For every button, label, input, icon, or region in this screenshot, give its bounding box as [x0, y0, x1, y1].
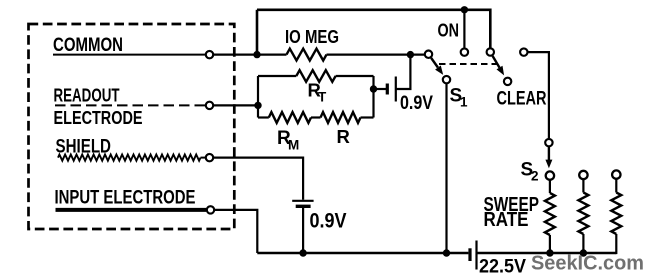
wire: shield terminal to battery	[214, 158, 303, 200]
switch CLEAR pole contact	[487, 48, 494, 55]
svg-text:INPUT ELECTRODE: INPUT ELECTRODE	[55, 188, 196, 209]
wire: S1 throw to bottom rail	[445, 84, 447, 253]
svg-text:COMMON: COMMON	[53, 34, 123, 56]
wire: loop left side	[257, 76, 259, 118]
switch S1 pole contact	[425, 51, 432, 58]
wire: loop top rail right	[336, 75, 374, 77]
svg-text:RATE: RATE	[484, 209, 529, 231]
node A: 10 MEG / S1 / cell	[407, 51, 414, 58]
wire: loop bottom rail right	[361, 116, 374, 118]
wire: bottom rail left	[257, 252, 468, 255]
input electrode thick lead	[56, 208, 207, 212]
node: loop right / cell junction	[370, 85, 377, 92]
switch S2 arrowhead	[545, 160, 552, 169]
wire: COMMON terminal to node	[214, 53, 287, 55]
switch contact ON	[461, 48, 468, 55]
resistor sweep rate 1	[545, 193, 555, 235]
wire: bottom rail right	[477, 252, 617, 255]
wire: loop bottom rail left	[258, 116, 269, 118]
battery 22.5V: short plate	[468, 248, 471, 261]
battery 0.9V: short plate	[296, 205, 311, 208]
resistor sweep rate 2	[578, 193, 588, 235]
node: resistor 1 / rail	[546, 249, 553, 256]
switch S1 throw contact	[443, 76, 450, 83]
switch S2 position contact 1	[546, 171, 554, 179]
svg-text:22.5V: 22.5V	[479, 256, 526, 278]
svg-text:T: T	[318, 90, 327, 105]
resistor R	[321, 112, 361, 123]
wire: top rail	[257, 10, 490, 48]
svg-text:0.9V: 0.9V	[400, 93, 433, 114]
svg-text:IO MEG: IO MEG	[285, 26, 339, 47]
wire: battery to bottom rail	[302, 208, 304, 253]
resistor RM	[269, 112, 311, 123]
battery cell 0.9V: long plate	[395, 77, 397, 102]
svg-text:0.9V: 0.9V	[310, 210, 347, 233]
wire: resistor 3 to rail corner	[615, 234, 617, 254]
dashed enclosure (electrometer head)	[29, 24, 235, 229]
wire: COMMON lead	[53, 54, 205, 56]
wire: loop top rail left	[258, 75, 296, 77]
resistor RT	[296, 70, 335, 82]
battery 0.9V: long plate	[292, 200, 313, 202]
node: battery / bottom rail	[299, 249, 306, 256]
battery cell 0.9V: short plate	[386, 84, 389, 95]
switch CLEAR arm	[493, 56, 500, 68]
terminal: COMMON	[206, 51, 213, 58]
switch S2 position contact 3	[612, 170, 620, 178]
node: COMMON junction	[253, 51, 260, 58]
shield lead zigzag	[58, 155, 201, 161]
wire: READOUT dashed lead	[55, 104, 205, 106]
switch S2 position contact 2	[579, 171, 587, 179]
wire: vertical to top rail	[256, 10, 259, 55]
wire: READOUT terminal to loop	[214, 104, 258, 106]
wire: input terminal to bottom rail	[215, 210, 257, 253]
wire: contact 1 to resistor	[549, 179, 551, 193]
switch CLEAR arrowhead	[497, 66, 505, 76]
terminal: SHIELD	[206, 154, 213, 161]
switch CLEAR throw contact	[504, 78, 511, 85]
svg-text:R: R	[337, 126, 350, 147]
switch S1 arrowhead	[435, 66, 443, 75]
gang link dashed	[439, 63, 498, 65]
battery 22.5V: long plate	[475, 241, 477, 270]
wire: loop right side	[372, 76, 374, 118]
wire: contact to S2 pole	[528, 52, 549, 138]
resistor 10 MEG	[287, 49, 327, 61]
switch S1 arm	[431, 58, 438, 68]
node: top rail / ON contact	[461, 6, 468, 13]
node: resistor 2 / rail	[580, 249, 587, 256]
wire: between RM and R	[311, 116, 321, 118]
wire: cell to node A	[396, 55, 411, 89]
wire: ON contact drop	[463, 10, 465, 48]
wire: 10 MEG to node A	[327, 53, 425, 55]
node: S1 wire / bottom rail	[443, 249, 450, 256]
wire: resistor 2 to rail	[582, 234, 584, 253]
svg-text:SeekIC.com: SeekIC.com	[531, 253, 644, 275]
svg-text:M: M	[288, 138, 299, 153]
svg-text:CLEAR: CLEAR	[497, 89, 547, 110]
switch S2 arm arrow shaft	[548, 147, 550, 160]
svg-text:READOUT: READOUT	[54, 86, 120, 106]
switch S2 pole contact	[545, 139, 552, 146]
svg-text:ELECTRODE: ELECTRODE	[54, 107, 143, 128]
wire: shield to terminal	[201, 157, 206, 159]
terminal: INPUT	[207, 206, 214, 213]
terminal: READOUT	[206, 102, 213, 109]
resistor sweep rate 3	[611, 193, 621, 235]
node: READOUT junction	[254, 102, 261, 109]
svg-text:2: 2	[531, 169, 539, 184]
svg-text:1: 1	[460, 95, 468, 110]
svg-text:SHIELD: SHIELD	[56, 137, 112, 158]
wire: junction to cell	[374, 88, 387, 90]
wire: contact 2 to resistor	[582, 179, 584, 192]
wire: resistor 1 to rail	[549, 235, 551, 253]
svg-text:ON: ON	[438, 21, 460, 41]
switch contact (to S2)	[520, 48, 527, 55]
wire: contact 3 to resistor	[615, 179, 617, 193]
